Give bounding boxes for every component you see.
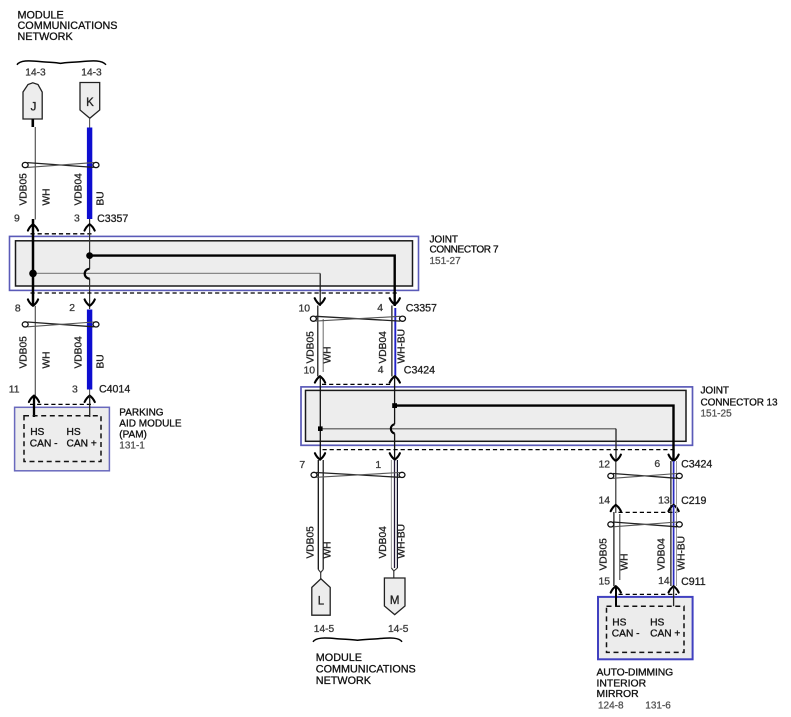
svg-text:8: 8 xyxy=(15,304,21,315)
arrow into C4014 pin 11 xyxy=(29,396,39,402)
arrow into C3357 pin 3 xyxy=(85,224,95,230)
svg-text:2: 2 xyxy=(69,303,75,314)
connector L xyxy=(312,579,330,615)
C219 dashed line xyxy=(619,511,678,513)
svg-text:4: 4 xyxy=(377,303,383,314)
wire through JC7 (pin 9 to pin 8, thick) xyxy=(32,219,35,306)
C4014 dashed line xyxy=(30,403,94,405)
svg-text:10: 10 xyxy=(298,304,310,315)
svg-text:3: 3 xyxy=(74,213,80,224)
wire VDB05 WH (pin 8 to C4014 pin 11) xyxy=(34,306,36,396)
label HS CAN - (mirror) xyxy=(612,618,640,640)
svg-text:HS: HS xyxy=(612,618,626,629)
arrow out pin 8 xyxy=(28,299,38,305)
label joint connector 7 xyxy=(430,234,500,267)
svg-text:C3424: C3424 xyxy=(404,364,435,376)
svg-text:CAN -: CAN - xyxy=(612,629,640,640)
arrow into C4014 pin 3 xyxy=(85,396,95,402)
svg-text:VDB05: VDB05 xyxy=(306,331,317,364)
svg-text:9: 9 xyxy=(14,214,20,225)
connector C3357 dashed line (top) xyxy=(31,233,94,235)
svg-text:4: 4 xyxy=(378,365,384,376)
JC13 bottom dashed line xyxy=(323,449,678,451)
svg-text:BU: BU xyxy=(96,354,107,368)
svg-text:14-5: 14-5 xyxy=(388,624,409,635)
svg-text:14-5: 14-5 xyxy=(314,624,335,635)
label: module communications network (bottom) xyxy=(316,652,416,687)
label joint connector 13 xyxy=(701,386,779,420)
wire VDB04 BU thick blue (K to C3357 pin 3) xyxy=(87,128,92,220)
svg-text:PARKING: PARKING xyxy=(119,407,163,418)
wire hop (pin3 wire over jumper) xyxy=(85,269,90,279)
arrow out pin 4 xyxy=(390,298,400,304)
svg-text:6: 6 xyxy=(654,459,660,470)
svg-text:CAN -: CAN - xyxy=(30,438,58,449)
JC7 bus: thick jumper to pin 4 xyxy=(90,256,395,306)
svg-text:WH: WH xyxy=(323,542,334,559)
junction dot (pin 10 wire) xyxy=(318,426,323,431)
arrow into C219 pin 13 xyxy=(669,505,679,511)
JC7 bottom dashed line xyxy=(31,292,398,294)
svg-text:VDB04: VDB04 xyxy=(657,538,668,571)
svg-text:151-25: 151-25 xyxy=(701,409,733,420)
wire VDB05 WH (pin 7 to L) xyxy=(317,460,319,570)
svg-text:CONNECTOR 7: CONNECTOR 7 xyxy=(430,244,500,255)
wire VDB04 WH-BU (pin 6 to C219 pin 13) xyxy=(670,461,672,505)
wire VDB04 WH-BU (pin4 to C3424 pin 4) xyxy=(391,306,393,377)
svg-text:11: 11 xyxy=(9,385,20,396)
JC7 bus: thin jumper to pin 10 xyxy=(33,272,320,274)
wire through JC13 (pin 4 to pin 1) xyxy=(394,376,396,424)
twisted pair symbol (middle upper) xyxy=(310,316,405,321)
C3424 dashed line (upper) xyxy=(322,383,391,385)
twisted pair symbol (right upper) xyxy=(608,473,683,478)
svg-text:C3357: C3357 xyxy=(97,213,128,225)
label HS CAN + (PAM) xyxy=(67,427,97,450)
label: module communications network (top) xyxy=(18,9,118,43)
arrow into C911 pin 14 xyxy=(669,586,679,592)
svg-text:K: K xyxy=(86,97,94,109)
wire VDB04 BU thick blue (pin 2 to C4014 pin 3) xyxy=(87,310,92,390)
svg-text:AUTO-DIMMING: AUTO-DIMMING xyxy=(597,668,674,679)
svg-text:MIRROR: MIRROR xyxy=(597,689,640,700)
svg-text:WH-BU: WH-BU xyxy=(397,524,408,559)
brace (bottom network) xyxy=(313,638,402,642)
JC13 bus: thin jumper to pin 12 xyxy=(320,428,616,430)
svg-text:124-8: 124-8 xyxy=(598,700,624,711)
wire into mirror pin 14 xyxy=(673,586,675,606)
mirror inner dashed rect xyxy=(607,606,685,652)
svg-text:HS: HS xyxy=(650,618,664,629)
svg-text:WH-BU: WH-BU xyxy=(677,536,688,571)
connector J xyxy=(23,83,42,119)
arrow out pin 7 xyxy=(315,453,325,459)
twisted pair symbol (PAM branch) xyxy=(22,322,99,327)
arrow into C219 pin 14 xyxy=(611,505,621,511)
svg-text:WH: WH xyxy=(323,347,334,364)
brace (top network) xyxy=(17,61,106,65)
arrow into C3424 pin 10 xyxy=(315,376,325,382)
svg-text:14-3: 14-3 xyxy=(81,68,102,79)
twisted pair symbol (top) xyxy=(22,162,99,167)
wire: K stub xyxy=(89,118,91,127)
svg-text:14: 14 xyxy=(658,576,670,587)
svg-text:VDB04: VDB04 xyxy=(378,526,389,559)
svg-text:AID MODULE: AID MODULE xyxy=(119,419,182,430)
svg-text:14-3: 14-3 xyxy=(25,68,46,79)
arrow out pin 6 xyxy=(669,455,679,461)
wire VDB05 WH (C219 to C911 pin 15) xyxy=(613,512,615,586)
svg-text:151-27: 151-27 xyxy=(430,256,462,267)
svg-text:10: 10 xyxy=(303,365,315,376)
svg-text:JOINT: JOINT xyxy=(701,386,729,397)
joint connector 13 outer blue box xyxy=(301,387,693,445)
svg-text:131-6: 131-6 xyxy=(645,700,671,711)
svg-text:(PAM): (PAM) xyxy=(119,430,147,441)
svg-text:VDB05: VDB05 xyxy=(19,336,30,369)
PAM inner dashed rect xyxy=(24,416,101,462)
svg-text:14: 14 xyxy=(598,495,610,506)
arrow into C3424 pin 4 xyxy=(390,376,400,382)
connector K xyxy=(80,83,100,119)
JC13 bus: thick jumper to pin 6 xyxy=(395,406,674,460)
joint connector 13 inner box xyxy=(306,390,687,441)
svg-text:M: M xyxy=(390,595,400,607)
C911 dashed line xyxy=(619,593,678,595)
svg-text:CAN +: CAN + xyxy=(650,629,680,640)
connector M xyxy=(384,578,405,615)
wire VDB05 (pin 12 to C219 pin 14) xyxy=(615,461,617,513)
auto-dimming interior mirror box xyxy=(598,597,693,659)
label HS CAN - (PAM) xyxy=(30,427,58,450)
svg-text:VDB04: VDB04 xyxy=(74,336,85,369)
svg-text:C219: C219 xyxy=(681,495,706,507)
svg-text:C3357: C3357 xyxy=(406,302,437,314)
label HS CAN + (mirror) xyxy=(650,618,680,640)
parking aid module box xyxy=(15,407,110,471)
junction dot (pin 4 wire) xyxy=(392,403,397,408)
wire: J stub xyxy=(31,119,34,127)
svg-text:12: 12 xyxy=(598,459,610,470)
svg-text:C4014: C4014 xyxy=(99,383,130,395)
wire into mirror pin 15 xyxy=(615,586,617,606)
joint connector 7 inner box xyxy=(16,241,413,286)
svg-text:VDB05: VDB05 xyxy=(19,173,30,206)
svg-text:NETWORK: NETWORK xyxy=(316,675,372,687)
svg-text:CAN +: CAN + xyxy=(67,438,97,449)
joint connector 7 outer blue box xyxy=(10,236,419,290)
svg-text:WH-BU: WH-BU xyxy=(397,329,408,364)
svg-text:MODULE: MODULE xyxy=(316,652,362,664)
label auto-dimming interior mirror xyxy=(597,668,674,701)
wire into PAM pin 11 xyxy=(33,396,35,417)
wire VDB05 WH (pin10 to C3424 pin 10) xyxy=(317,306,319,377)
svg-text:WH: WH xyxy=(42,352,53,369)
wire VDB05 WH (J to C3357 pin 9) xyxy=(34,127,36,220)
svg-text:COMMUNICATIONS: COMMUNICATIONS xyxy=(316,664,416,676)
svg-text:13: 13 xyxy=(658,495,670,506)
svg-text:3: 3 xyxy=(72,384,78,395)
svg-text:VDB05: VDB05 xyxy=(306,526,317,559)
arrow into C911 pin 15 xyxy=(611,586,621,592)
svg-text:7: 7 xyxy=(299,460,305,471)
arrow into C3357 pin 9 xyxy=(28,224,38,230)
svg-text:C911: C911 xyxy=(681,576,706,588)
arrow out pin 12 xyxy=(611,455,621,461)
svg-text:VDB05: VDB05 xyxy=(599,538,610,571)
twisted pair symbol (bottom middle) xyxy=(311,472,405,477)
svg-text:WH: WH xyxy=(42,189,53,206)
svg-text:J: J xyxy=(31,102,37,114)
JC7 exit wire pin 10 xyxy=(319,273,321,306)
svg-text:INTERIOR: INTERIOR xyxy=(597,679,647,690)
arrow out pin 10 xyxy=(315,298,325,304)
JC13 exit wire pin 12 xyxy=(615,429,617,460)
svg-text:WH: WH xyxy=(620,554,631,571)
arrow out pin 2 xyxy=(85,299,95,305)
label parking aid module xyxy=(119,407,182,451)
svg-text:C3424: C3424 xyxy=(681,458,712,470)
junction dot on pin9 wire xyxy=(29,270,37,278)
wire hop (pin1 wire over jumper) xyxy=(391,424,395,433)
svg-text:VDB04: VDB04 xyxy=(74,173,85,206)
arrow out pin 1 xyxy=(390,453,400,459)
wire VDB04 WH-BU (pin 1 to M) xyxy=(390,460,392,568)
svg-text:1: 1 xyxy=(375,460,381,471)
wire VDB04 WH-BU (C219 to C911 pin 14) xyxy=(670,505,672,586)
svg-text:BU: BU xyxy=(96,191,107,205)
wire through JC7 (pin 3 to pin 2, thin) xyxy=(89,232,91,269)
junction dot on pin3 wire xyxy=(86,252,93,259)
svg-text:NETWORK: NETWORK xyxy=(18,31,74,43)
twisted pair symbol (right lower) xyxy=(608,522,683,527)
svg-text:CONNECTOR 13: CONNECTOR 13 xyxy=(701,397,779,408)
wire into PAM pin 3 xyxy=(89,396,91,417)
svg-text:HS: HS xyxy=(67,427,81,438)
svg-text:L: L xyxy=(318,596,325,608)
svg-text:HS: HS xyxy=(30,427,44,438)
wire through JC13 (pin 10 to pin 7) xyxy=(319,376,321,460)
svg-text:131-1: 131-1 xyxy=(119,441,145,452)
svg-text:VDB04: VDB04 xyxy=(378,331,389,364)
svg-text:15: 15 xyxy=(598,576,610,587)
